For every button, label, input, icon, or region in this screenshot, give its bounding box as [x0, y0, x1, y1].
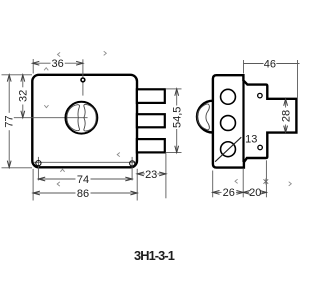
- dim 36: [33, 58, 83, 70]
- ext line 46 left: [243, 60, 245, 74]
- ext line 36 left: [32, 59, 34, 74]
- top hole: [81, 78, 85, 82]
- stray mark star on 20 ext: [264, 179, 269, 185]
- side small hole top: [258, 93, 263, 98]
- svg-text:86: 86: [77, 188, 89, 200]
- stray mark chevron near 74: [57, 182, 60, 186]
- screw hole left tick: [37, 157, 39, 170]
- ext line 54.5 top: [166, 88, 182, 90]
- stray mark chevron left of 26 ext: [235, 179, 238, 183]
- svg-text:23: 23: [145, 169, 157, 181]
- dim 74: [38, 174, 132, 186]
- svg-text:36: 36: [51, 58, 63, 70]
- centerline vertical through top hole: [82, 59, 84, 95]
- svg-text:3H1-3-1: 3H1-3-1: [134, 248, 175, 263]
- side hole 3 slash: [215, 137, 241, 162]
- ext line tab right: [165, 153, 167, 198]
- ext line 46 right: [297, 60, 299, 98]
- dim 46: [244, 58, 300, 70]
- svg-text:46: 46: [264, 58, 276, 70]
- stray mark caret below 36: [44, 68, 48, 71]
- svg-text:26: 26: [223, 187, 235, 199]
- screw hole left: [36, 161, 41, 166]
- dim 77: [4, 75, 16, 168]
- bolt tab 1: [137, 89, 165, 103]
- stray mark caret near 77 bottom: [60, 169, 64, 172]
- ext line 26/20 middle: [242, 169, 244, 197]
- ext line body right bottom: [136, 169, 138, 201]
- ext line 20 right: [265, 160, 267, 197]
- cylinder bump outer: [197, 101, 213, 133]
- stray mark chevron right of 36: [104, 51, 107, 55]
- ext line 54.5 bottom: [166, 152, 182, 154]
- bolt tab 2: [137, 114, 165, 127]
- thumbturn right wing: [84, 104, 96, 131]
- side hole 3: [221, 142, 236, 157]
- dim 54.5: [172, 89, 184, 153]
- side hole 2: [221, 116, 236, 131]
- svg-text:77: 77: [4, 115, 16, 127]
- stray mark chevron above 36: [58, 52, 61, 56]
- lock body (front view): [32, 75, 137, 168]
- dim 28: [281, 99, 293, 132]
- screw hole centerline: [34, 161, 136, 163]
- title label 3H1-3-1: [134, 248, 175, 263]
- dim 20: [243, 187, 266, 199]
- centerline horizontal to cylinder: [14, 117, 88, 119]
- cylinder circle: [66, 102, 98, 134]
- stray mark chevron right of 20 ext: [289, 182, 292, 186]
- ext line body bottom left: [2, 167, 33, 169]
- ext line 74/86 verticals: [33, 169, 132, 201]
- bolt tab 3: [137, 139, 165, 152]
- svg-text:32: 32: [18, 90, 30, 102]
- stray mark check inside body: [44, 105, 48, 108]
- svg-text:20: 20: [249, 187, 261, 199]
- dim 23: [137, 169, 166, 181]
- cylinder bump crescent: [197, 104, 209, 130]
- dim 86: [33, 188, 137, 200]
- side view joint line: [242, 81, 244, 163]
- label 13: [245, 133, 257, 145]
- svg-text:54,5: 54,5: [172, 107, 184, 128]
- dim 32: [18, 75, 30, 118]
- side hole 1: [221, 89, 236, 104]
- screw hole right tick: [131, 157, 133, 170]
- thumbturn left wing: [67, 105, 80, 131]
- side view outline: [213, 75, 297, 167]
- side small hole bottom: [258, 145, 263, 150]
- ext line body top left: [2, 74, 33, 76]
- screw hole right: [130, 161, 135, 166]
- dim 26: [213, 187, 244, 199]
- ext line 26 left: [212, 171, 214, 198]
- svg-text:13: 13: [245, 133, 257, 145]
- stray mark chevron bottom body: [117, 153, 120, 157]
- svg-text:28: 28: [281, 110, 293, 122]
- svg-text:74: 74: [77, 174, 89, 186]
